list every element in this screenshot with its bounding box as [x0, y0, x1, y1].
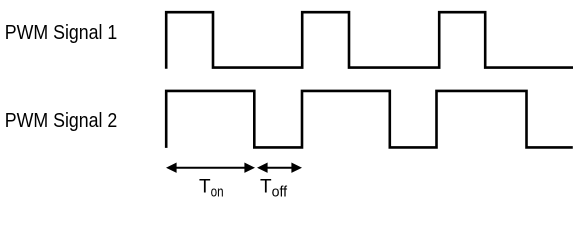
waveform PWM Signal 2	[166, 91, 573, 148]
arrow Toff (double-headed)	[257, 163, 302, 173]
svg-text:PWM Signal 1: PWM Signal 1	[5, 22, 118, 44]
arrow Ton (double-headed)	[166, 163, 255, 173]
waveform PWM Signal 1	[166, 12, 573, 68]
svg-text:PWM Signal 2: PWM Signal 2	[5, 110, 118, 132]
